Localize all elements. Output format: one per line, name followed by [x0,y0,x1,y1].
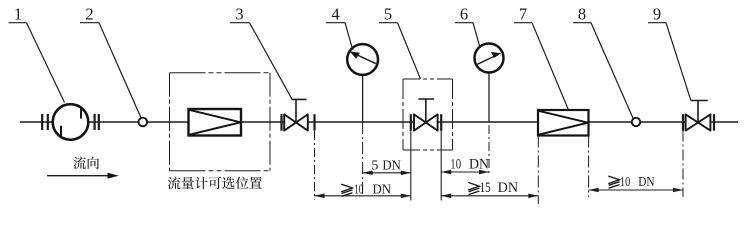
flange right of valve 3 [313,114,315,131]
flange left of valve 9 [682,114,684,131]
text >=15 DN [468,182,479,194]
extension line below gauge4 (dash-dot) [362,122,364,196]
svg-text:10: 10 [620,175,630,190]
flange left of valve 3 [280,114,282,131]
wire: main pipeline [88,121,738,123]
extension line from valve3 right flange (dash-dot) [314,131,316,200]
dash-dot box: optional flowmeter position [170,73,271,171]
dash-dot box: optional valve position [403,79,453,150]
gauge 6 connector [488,71,490,122]
pump 1 (circle) [53,104,89,140]
dimension line >=10 DN left [315,195,411,197]
flange right of valve 5 [440,114,442,131]
text: flowmeter optional position [168,177,262,190]
dimension line 10 DN [441,171,489,173]
dimension line >=15 DN [441,195,538,197]
svg-text:DN: DN [382,158,401,173]
svg-text:DN: DN [498,180,519,196]
flowmeter (rect with wedge) in optional box [189,109,242,136]
dimension line >=10 DN right [589,189,683,191]
svg-text:3: 3 [235,4,243,23]
flange pair right of pump [95,114,99,130]
svg-text:DN: DN [373,183,392,198]
extension line from valve5 left flange (solid) [410,131,412,201]
label 4 [326,4,353,50]
svg-text:10: 10 [354,183,363,198]
straightener 7 (rect with wedge) [538,110,589,136]
extension line below gauge6 (dash-dot) [488,125,490,176]
extension line from valve5 right flange (solid) [440,131,442,201]
label 2 [80,4,141,117]
extension line from straightener7 right edge (dash-dot) [588,136,590,198]
wire: main pipeline left stub [20,121,53,123]
flange left of valve 5 [410,114,412,131]
gauge 6 (thermometer circle) [475,44,504,73]
text >=10 DN (right) [608,176,619,188]
gauge 4 (pressure gauge circle) [347,44,378,75]
svg-text:15: 15 [480,180,491,196]
valve 3 body (bowtie) [284,114,308,130]
label 5 [379,4,421,79]
svg-text:9: 9 [653,4,661,23]
dimension line 5 DN [363,172,411,174]
label 3 [230,4,292,99]
label 9 [648,4,691,100]
svg-text:8: 8 [578,4,586,23]
text >=10 DN (left) [341,184,352,196]
svg-text:1: 1 [14,4,22,23]
gauge 4 connector [362,74,364,122]
valve 9 stem and handle [691,101,708,123]
gauge 4 needle [349,51,376,63]
label 6 [455,4,480,46]
svg-text:4: 4 [331,4,339,23]
svg-text:6: 6 [460,4,468,23]
svg-text:2: 2 [85,4,93,23]
extension line from straightener7 left edge (dash-dot) [537,136,539,205]
label 7 [514,4,569,110]
svg-text:DN: DN [638,175,654,190]
valve 5 body (bowtie) [414,114,438,130]
svg-text:10: 10 [450,156,461,172]
svg-text:5: 5 [371,158,378,173]
label 8 [573,4,634,119]
valve 3 stem and handle [292,99,307,122]
valve 9 body (bowtie) [686,114,711,130]
pump 1 inner vanes [61,107,81,138]
label 1 [9,4,65,102]
valve 5 stem and handle [418,99,434,123]
svg-text:5: 5 [384,4,392,23]
node 8 (small circle) [632,118,640,126]
extension line from valve9 left flange (dash-dot) [682,131,684,198]
flange right of valve 9 [713,114,715,131]
svg-text:7: 7 [519,4,527,23]
text: flow direction (liu xiang) [73,157,99,170]
node 2 (small circle) [139,118,148,127]
svg-text:DN: DN [469,156,489,172]
gauge 6 needle [478,52,502,64]
flange pair left of pump [42,114,48,130]
flow direction arrow [47,173,119,179]
